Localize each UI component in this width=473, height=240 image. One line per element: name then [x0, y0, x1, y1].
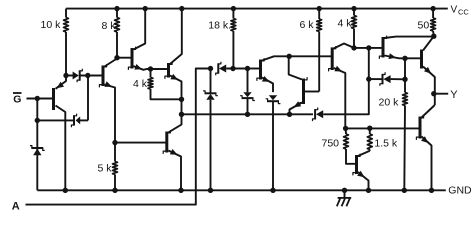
transistor Q8 emitter	[423, 67, 435, 94]
transistor Q1 emitter	[56, 76, 67, 89]
node Vcc-18k junction	[231, 6, 236, 11]
svg-text:750: 750	[322, 137, 340, 149]
node 10k bottom	[63, 73, 68, 78]
wire collector node to Q6 base	[289, 55, 332, 57]
transistor Q3 collector	[170, 9, 182, 64]
resistor R4 6k	[318, 9, 320, 19]
svg-text:18 k.: 18 k.	[208, 20, 231, 32]
resistor R3 18k	[232, 9, 234, 19]
wire 4k node line	[354, 47, 383, 49]
node Q4Q5 collector junction	[287, 54, 292, 59]
diode D5 inline	[217, 63, 219, 73]
wire A input	[26, 69, 211, 205]
transistor Q10 bar	[355, 155, 358, 174]
node squaring 750 tap	[343, 126, 348, 131]
transistor Q7 emitter	[385, 56, 406, 59]
wire Y output	[434, 93, 448, 95]
node GND 20k	[402, 188, 407, 193]
transistor Q2 collector	[134, 9, 146, 50]
transistor Q8 collector	[423, 36, 434, 50]
transistor Q6 collector	[334, 44, 354, 49]
wire squaring node line	[346, 127, 420, 129]
transistor Q1 bar	[52, 88, 55, 110]
transistor Q5 bar	[302, 79, 305, 105]
node Q5 emitter on rail	[287, 112, 292, 117]
resistor R2 8k	[116, 9, 118, 18]
svg-text:6 k: 6 k	[300, 19, 315, 31]
wire Y down to Q9 collector	[434, 94, 436, 105]
node GND Q9 emitter	[429, 188, 434, 193]
node Vcc-Q3 collector junction	[179, 6, 184, 11]
node GND A clamp	[208, 188, 213, 193]
node GND Q10 emitter	[366, 188, 371, 193]
wire Q8 base node down	[404, 58, 406, 79]
transistor Q10 emitter	[358, 172, 369, 190]
wire node X down	[87, 76, 89, 121]
node Y junction	[431, 91, 436, 96]
node Q4 base junction	[245, 66, 250, 71]
diode D2	[76, 116, 81, 124]
ground symbol	[344, 190, 346, 198]
node 50ohm bottom	[431, 34, 436, 39]
node enable rail D6 junction	[245, 112, 250, 117]
node GND 5k	[112, 188, 117, 193]
node GND Q1 collector	[63, 188, 68, 193]
node GND Q2b emitter	[178, 188, 183, 193]
transistor Q9 bar	[419, 117, 422, 139]
wire 10k node to D1	[66, 75, 73, 77]
node GND Q4 diode	[270, 188, 275, 193]
wire enable rail	[182, 113, 314, 115]
resistor R8 5k	[114, 143, 116, 162]
resistor R5 4k upper	[353, 9, 355, 16]
wire G input	[27, 98, 54, 100]
transistor Q4 bar	[259, 60, 262, 80]
transistor Q5 collector	[289, 56, 302, 79]
wire D5 to 18k node	[226, 68, 247, 70]
svg-text:4 k: 4 k	[133, 78, 148, 90]
node Vcc-Q2 collector junction	[143, 6, 148, 11]
svg-text:G: G	[13, 94, 21, 106]
svg-text:20 k: 20 k	[379, 96, 400, 108]
transistor Q2a emitter	[105, 85, 116, 143]
svg-text:A: A	[12, 201, 20, 213]
wire D2 to G node	[37, 119, 74, 121]
transistor Q7 collector	[385, 37, 434, 38]
diode D8 inline rail	[314, 109, 316, 119]
diode D7 Q4 emitter	[269, 95, 277, 100]
svg-text:50: 50	[418, 19, 430, 31]
wire G node down	[36, 99, 38, 191]
diode D6 to enable rail	[247, 69, 249, 93]
transistor Q2b collector	[168, 114, 181, 132]
transistor Q6 emitter	[334, 68, 346, 128]
wire GND rail	[37, 189, 446, 191]
wire Q8 base	[405, 57, 422, 59]
transistor Q3 bar	[167, 63, 170, 78]
node 4k bottom	[351, 45, 356, 50]
node D9 right junction	[402, 77, 407, 82]
svg-text:8 k: 8 k	[102, 20, 117, 32]
svg-text:10 k: 10 k	[41, 19, 62, 31]
wire rail right segment	[323, 48, 369, 114]
transistor Q2a bar	[102, 66, 105, 87]
node Vcc-6k junction	[317, 6, 322, 11]
svg-text:V: V	[451, 5, 458, 16]
node G input junction	[35, 96, 40, 101]
transistor Q4 collector	[262, 56, 289, 60]
transistor Q5 emitter	[290, 103, 303, 115]
node squaring 1.5k tap	[367, 126, 372, 131]
diode D1	[73, 72, 79, 80]
transistor Q9 collector	[422, 105, 435, 118]
transistor Q3 emitter	[170, 76, 182, 115]
svg-text:5 k: 5 k	[98, 163, 113, 175]
node 8k bottom	[114, 55, 119, 60]
transistor Q7 bar	[382, 37, 385, 58]
transistor Q2b emitter	[168, 151, 181, 191]
node Q2 emitter junction	[148, 66, 153, 71]
transistor Q10 collector	[358, 151, 370, 156]
resistor R7 4k left	[150, 69, 152, 78]
resistor R6 50	[432, 9, 434, 18]
wire to Q4 base	[248, 68, 261, 70]
wire Vcc top rail	[66, 8, 448, 10]
wire D1 to Q2a base	[80, 75, 103, 77]
wire 8k node to Q2 base	[117, 57, 132, 59]
wire D2 right	[80, 119, 88, 121]
node GND earth tap	[342, 188, 347, 193]
svg-text:Y: Y	[450, 89, 458, 101]
node Vcc-4k junction	[351, 6, 356, 11]
node Vcc-50ohm junction	[430, 6, 435, 11]
node 18k bottom	[230, 66, 235, 71]
diode D3 clamp	[31, 147, 43, 149]
svg-text:GND: GND	[448, 185, 472, 197]
resistor R9 20k	[404, 79, 406, 92]
node mid rail left junction	[179, 112, 184, 117]
transistor Q9 emitter	[422, 137, 432, 191]
svg-text:4 k: 4 k	[338, 18, 353, 30]
node Q7 base junction	[366, 45, 371, 50]
node G lower junction	[35, 118, 40, 123]
svg-text:1.5 k: 1.5 k	[374, 137, 398, 149]
node rail diode tap	[366, 76, 371, 81]
node Q3 emitter junction	[179, 97, 184, 102]
wire Q2e to Q3 base	[151, 68, 169, 70]
node A line junction	[208, 66, 213, 71]
transistor Q2b bar	[165, 132, 168, 153]
node phase splitter base	[112, 140, 117, 145]
wire 6k down to Q5 base	[304, 91, 320, 93]
node Vcc-8k junction	[114, 6, 119, 11]
transistor Q1 collector	[56, 106, 66, 191]
transistor Q2 emitter	[134, 66, 151, 70]
resistor R1 10k	[65, 9, 67, 18]
transistor Q2 bar	[131, 48, 134, 69]
transistor Q4 emitter	[262, 78, 273, 93]
transistor Q2a collector	[105, 58, 118, 67]
resistor R10 750	[345, 128, 347, 134]
diode D9	[369, 78, 383, 80]
diode D4 A clamp	[210, 69, 212, 93]
node X junction	[85, 73, 90, 78]
resistor R11 1.5k	[369, 128, 371, 134]
transistor Q8 bar	[420, 50, 423, 69]
svg-text:CC: CC	[458, 7, 469, 16]
transistor Q6 bar	[331, 47, 334, 70]
node Q8 base	[402, 56, 407, 61]
wire Q2b base	[115, 142, 167, 144]
